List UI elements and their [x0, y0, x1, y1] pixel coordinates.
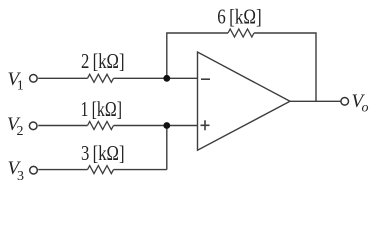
svg-text:3: 3 — [17, 169, 24, 184]
svg-text:2 [kΩ]: 2 [kΩ] — [81, 49, 125, 73]
svg-text:1: 1 — [17, 79, 24, 94]
svg-text:3 [kΩ]: 3 [kΩ] — [81, 141, 125, 165]
svg-text:o: o — [362, 101, 369, 116]
svg-text:2: 2 — [17, 124, 24, 139]
svg-text:6 [kΩ]: 6 [kΩ] — [217, 5, 261, 29]
svg-text:1 [kΩ]: 1 [kΩ] — [81, 97, 123, 121]
